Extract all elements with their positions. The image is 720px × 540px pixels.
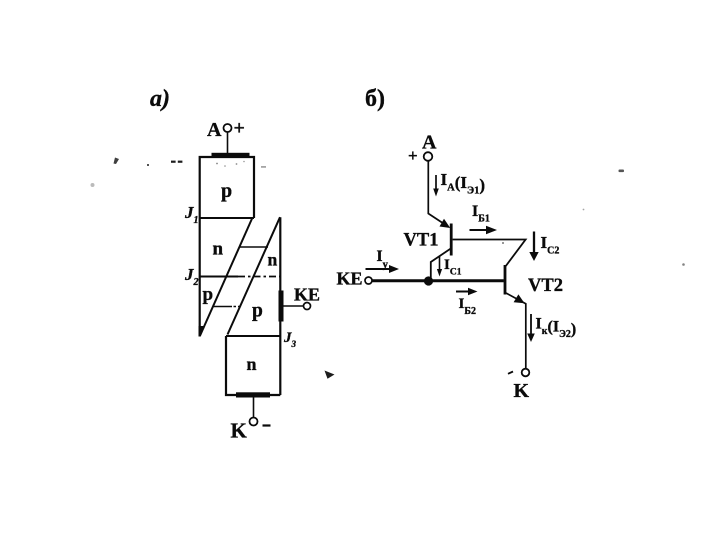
wire KE electrode to KE terminal bbox=[284, 305, 304, 307]
junction J3 line bbox=[226, 335, 280, 337]
transistor VT2 base bar bbox=[504, 265, 507, 295]
svg-text:a): a) bbox=[150, 86, 170, 112]
small tick left of K terminal bbox=[508, 372, 513, 374]
connector line in n2 layer between cuts bbox=[239, 246, 268, 248]
junction node dot (gate node) bbox=[424, 276, 433, 285]
svg-text:J3: J3 bbox=[283, 330, 297, 349]
svg-text:IБ2: IБ2 bbox=[459, 296, 476, 317]
wire KE terminal to VT2 base bbox=[372, 279, 504, 282]
terminal KE circle bbox=[365, 277, 372, 284]
current arrow IБ2 bbox=[456, 291, 470, 293]
current arrow IC2 bbox=[533, 232, 535, 254]
svg-text:KE: KE bbox=[294, 285, 320, 305]
svg-text:б): б) bbox=[365, 86, 385, 112]
p1 emitter region outline (top rectangle) bbox=[200, 157, 254, 335]
terminal A circle bbox=[424, 152, 433, 161]
terminal K circle bbox=[522, 369, 530, 377]
cathode electrode bar bbox=[236, 392, 270, 397]
svg-text:p: p bbox=[203, 284, 214, 305]
VT1 emitter arrowhead bbox=[440, 219, 451, 228]
svg-text:+: + bbox=[408, 146, 418, 165]
VT2 emitter arrowhead bbox=[514, 294, 525, 303]
wire VT2 emitter down to K bbox=[506, 293, 526, 369]
svg-text:K: K bbox=[231, 419, 248, 443]
svg-text:n: n bbox=[247, 354, 257, 374]
wire A terminal to anode electrode bbox=[227, 133, 229, 154]
right stack right edge bbox=[279, 217, 281, 395]
svg-text:IС2: IС2 bbox=[541, 233, 560, 257]
connector line in p3 layer between cuts bbox=[214, 306, 233, 308]
terminal A circle bbox=[224, 124, 232, 132]
svg-text:KE: KE bbox=[337, 269, 363, 289]
anode electrode bar bbox=[212, 153, 250, 158]
KE terminal circle bbox=[304, 303, 311, 310]
transistor VT1 base bar bbox=[450, 224, 453, 256]
svg-text:J2: J2 bbox=[184, 265, 199, 288]
svg-text:Iу: Iу bbox=[377, 248, 389, 271]
svg-text:p: p bbox=[252, 301, 263, 322]
svg-text:VT1: VT1 bbox=[404, 231, 439, 251]
current arrow Iу bbox=[366, 268, 391, 270]
svg-text:+: + bbox=[234, 118, 245, 140]
n4 emitter region outline (bottom rectangle) bbox=[226, 336, 280, 395]
current label IA(IЭ1) down arrow bbox=[435, 175, 437, 192]
wire VT1 collector down to gate node bbox=[431, 249, 451, 278]
svg-text:p: p bbox=[221, 180, 232, 202]
svg-text:VT2: VT2 bbox=[528, 276, 563, 296]
svg-text:J1: J1 bbox=[184, 203, 199, 226]
diagonal cut line 2 bbox=[228, 217, 281, 334]
left stack bottom tip blob bbox=[199, 326, 204, 337]
svg-text:IС1: IС1 bbox=[444, 257, 462, 278]
svg-text:Iк(IЭ2): Iк(IЭ2) bbox=[536, 316, 577, 341]
wire VT1 base to VT2 collector bbox=[453, 240, 526, 267]
wire cathode electrode to K terminal bbox=[253, 398, 255, 418]
svg-text:IА(IЭ1): IА(IЭ1) bbox=[441, 170, 486, 197]
svg-text:IБ1: IБ1 bbox=[472, 203, 490, 225]
wire from A down to VT1 emitter bbox=[428, 161, 445, 225]
current label IС1 down arrow bbox=[439, 257, 441, 272]
terminal K circle bbox=[250, 418, 258, 426]
minus sign at cathode bbox=[263, 424, 271, 426]
svg-text:K: K bbox=[514, 380, 530, 402]
gate electrode bar (KE) bbox=[279, 291, 284, 322]
current label IК(IЭ2) down arrow bbox=[530, 314, 532, 336]
junction J1 line bbox=[199, 217, 254, 219]
svg-text:A: A bbox=[207, 119, 222, 141]
svg-text:A: A bbox=[422, 132, 437, 154]
diagonal cut line 1 bbox=[200, 218, 252, 336]
svg-text:n: n bbox=[268, 250, 278, 270]
junction J2 line (dash-dot) bbox=[200, 276, 238, 278]
svg-text:n: n bbox=[213, 239, 224, 260]
current arrow IБ1 bbox=[470, 229, 487, 231]
